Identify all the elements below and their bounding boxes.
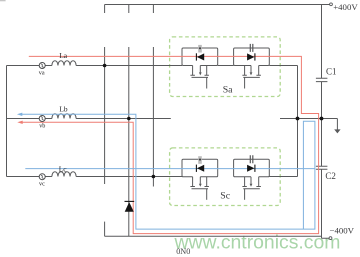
svg-text:+400V: +400V: [333, 2, 358, 12]
svg-text:Sa: Sa: [223, 84, 233, 95]
svg-text:Lc: Lc: [59, 165, 68, 174]
svg-text:www.cntronics.com: www.cntronics.com: [174, 232, 341, 254]
svg-text:C2: C2: [325, 171, 336, 181]
svg-text:La: La: [59, 51, 68, 60]
svg-text:Sc: Sc: [220, 191, 230, 202]
svg-text:−400V: −400V: [330, 226, 355, 236]
svg-text:va: va: [39, 69, 45, 76]
svg-text:vc: vc: [39, 181, 45, 188]
svg-text:C1: C1: [326, 67, 337, 77]
svg-text:0N0: 0N0: [176, 247, 190, 256]
svg-text:vb: vb: [39, 123, 45, 130]
svg-text:Lb: Lb: [59, 105, 68, 114]
